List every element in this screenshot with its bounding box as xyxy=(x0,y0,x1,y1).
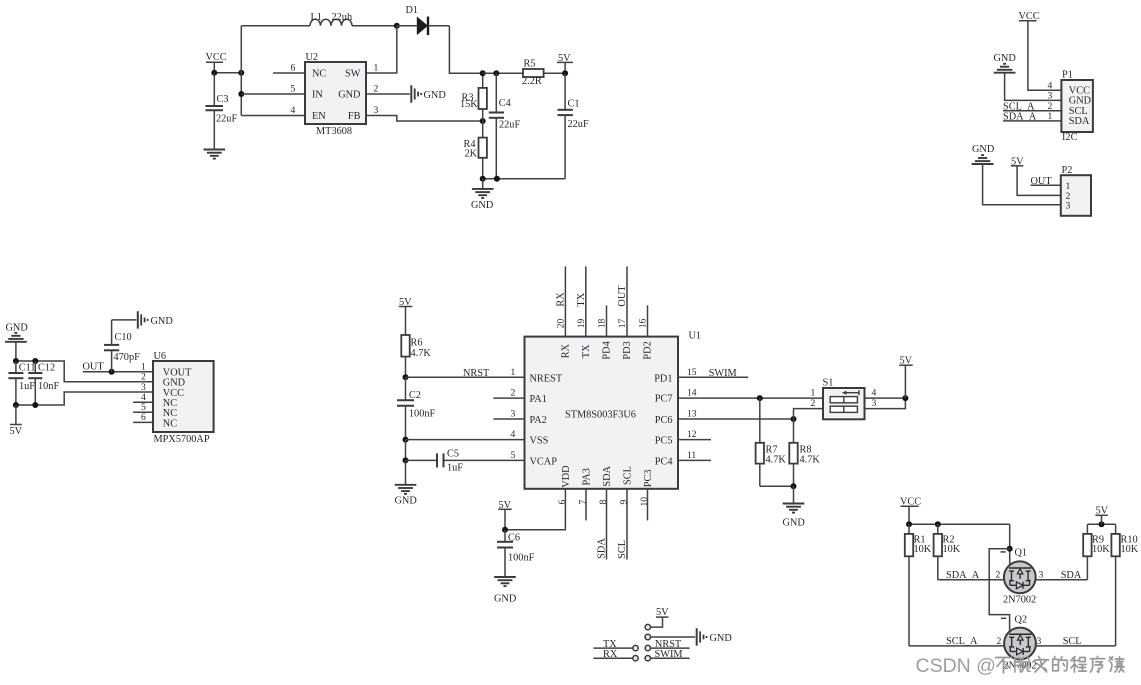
wire OUT pin17 xyxy=(626,266,628,336)
svg-text:MPX5700AP: MPX5700AP xyxy=(154,434,210,445)
sensor U6 MPX5700AP body xyxy=(153,351,214,445)
wire TX pin19 xyxy=(585,266,587,336)
svg-text:3: 3 xyxy=(1066,201,1071,212)
inductor L1 22uh xyxy=(310,12,353,26)
svg-text:C2: C2 xyxy=(409,390,421,401)
wire SCL_A to P1 pin2 xyxy=(1003,110,1061,112)
watermark glyph de xyxy=(1053,657,1068,671)
svg-text:SCL: SCL xyxy=(1063,636,1082,647)
svg-text:10K: 10K xyxy=(914,544,932,555)
svg-text:2: 2 xyxy=(811,398,816,409)
svg-text:20: 20 xyxy=(555,319,566,329)
ground earth below C2 xyxy=(395,460,418,506)
wire top to inductor xyxy=(241,25,310,27)
svg-text:U6: U6 xyxy=(154,351,167,362)
wire SDA pin8 xyxy=(606,489,608,560)
svg-text:U1: U1 xyxy=(689,331,702,342)
ground earth below C6 xyxy=(494,577,517,604)
power flag VCC (boost input) xyxy=(206,52,227,73)
wire C10 to GND bar xyxy=(112,319,137,321)
svg-text:PC3: PC3 xyxy=(643,469,654,487)
pin 11 PC4 stub xyxy=(678,459,711,461)
header pad RX xyxy=(633,656,638,661)
wire SDA row xyxy=(938,579,1088,581)
wire RX pin20 xyxy=(564,266,566,336)
resistor R8 4.7K xyxy=(789,419,820,486)
svg-text:SDA: SDA xyxy=(597,538,608,559)
wire FB pin3 to divider xyxy=(366,116,483,122)
svg-text:22uF: 22uF xyxy=(499,119,520,130)
node junction C12 bottom xyxy=(32,402,38,408)
wire sensor bottom rail to VCC pin3 xyxy=(16,392,153,405)
svg-text:PC7: PC7 xyxy=(655,393,673,404)
svg-text:PD3: PD3 xyxy=(622,341,633,359)
pin 6 NC stub xyxy=(273,72,305,74)
svg-text:3: 3 xyxy=(1037,636,1042,647)
resistor R9 10K xyxy=(1083,524,1110,579)
svg-text:VCC: VCC xyxy=(206,52,227,63)
svg-text:1uF: 1uF xyxy=(447,463,463,474)
svg-text:FB: FB xyxy=(348,111,361,122)
wire SCL row xyxy=(909,645,1116,647)
node junction C11 bottom xyxy=(13,402,19,408)
capacitor C6 100nF xyxy=(497,530,535,577)
svg-text:4.7K: 4.7K xyxy=(766,454,787,465)
capacitor C3 22uF xyxy=(206,73,238,150)
svg-text:NREST: NREST xyxy=(530,373,563,384)
node junction C4 top xyxy=(493,70,499,76)
wire node to S1 pin2 xyxy=(794,409,824,419)
svg-text:8: 8 xyxy=(598,500,609,505)
svg-text:4.7K: 4.7K xyxy=(800,454,821,465)
wire R7 bottom to R8 bottom xyxy=(760,485,794,487)
node junction out/R3 xyxy=(480,70,486,76)
wire 5V to P2 pin2 xyxy=(1017,166,1061,196)
svg-text:10nF: 10nF xyxy=(38,381,59,392)
svg-text:4.7K: 4.7K xyxy=(411,348,432,359)
svg-text:13: 13 xyxy=(687,409,697,420)
svg-text:6: 6 xyxy=(291,63,296,74)
wire sensor top rail to GND pin2 xyxy=(16,361,153,382)
svg-text:GND: GND xyxy=(338,90,361,101)
svg-text:5: 5 xyxy=(291,84,296,95)
power flag VCC (P1) xyxy=(1019,11,1040,22)
svg-text:2N7002: 2N7002 xyxy=(1003,594,1036,605)
node junction R1 top xyxy=(906,521,912,527)
svg-text:RX: RX xyxy=(556,292,567,307)
svg-text:3: 3 xyxy=(511,409,516,420)
svg-text:11: 11 xyxy=(687,450,696,461)
wire RX to header xyxy=(593,657,632,659)
svg-text:I2C: I2C xyxy=(1062,132,1078,143)
svg-text:C4: C4 xyxy=(499,98,511,109)
wire pin14 to S1 pin1 xyxy=(678,397,823,399)
wire OUT to VOUT pin1 xyxy=(83,371,153,373)
watermark glyph cheng xyxy=(1071,657,1087,673)
svg-text:GND: GND xyxy=(494,593,517,604)
power flag 5V (boost output) xyxy=(557,53,573,73)
wire output node to R5 xyxy=(483,72,523,74)
wire GND to P1 pin3 xyxy=(1005,73,1062,101)
ground GND (bar style) at U2 pin2 xyxy=(411,85,446,102)
node junction 5V/C6/VDD xyxy=(502,527,508,533)
svg-text:PA1: PA1 xyxy=(530,394,547,405)
pin 4 NC stub (U6) xyxy=(133,401,153,403)
wire NRST header xyxy=(651,647,690,649)
capacitor C5 1uF xyxy=(406,449,525,474)
pin 5 NC stub (U6) xyxy=(133,411,153,413)
resistor R6 4.7K xyxy=(401,335,431,377)
switch S1 body xyxy=(823,378,865,420)
node junction VSS xyxy=(403,437,409,443)
pin 2 PA1 stub xyxy=(493,397,524,399)
node junction 5V rail xyxy=(1099,521,1105,527)
pin 16 PD2 stub xyxy=(647,305,649,336)
node junction VCC/C3 xyxy=(211,70,217,76)
wire VCC rail to gate riser xyxy=(909,523,1010,525)
wire OUT to P2 pin1 xyxy=(1031,184,1061,186)
svg-text:VSS: VSS xyxy=(530,436,549,447)
capacitor C4 22uF xyxy=(489,73,521,179)
svg-text:470pF: 470pF xyxy=(114,352,141,363)
capacitor C1 22uF xyxy=(558,73,589,179)
pin 12 PC5 stub xyxy=(678,439,711,441)
connector P2 body xyxy=(1061,165,1091,216)
svg-text:VDD: VDD xyxy=(561,465,572,488)
svg-text:4: 4 xyxy=(511,429,516,440)
wire VCC to P1 pin4 xyxy=(1028,21,1062,91)
wire 5V to header pin xyxy=(651,617,663,627)
resistor R5 2.2R xyxy=(522,58,565,87)
node junction rail/C4 xyxy=(494,176,500,182)
pin 7 PA3 stub xyxy=(585,489,587,521)
svg-text:2K: 2K xyxy=(465,148,478,159)
wire S1 pin3 riser xyxy=(865,398,906,409)
svg-text:C1: C1 xyxy=(568,99,580,110)
svg-text:C12: C12 xyxy=(38,363,55,374)
wire input riser xyxy=(240,26,242,116)
pin 10 PC3 stub xyxy=(647,489,649,521)
svg-text:2: 2 xyxy=(996,569,1001,580)
svg-text:18: 18 xyxy=(597,319,608,329)
pin dash Q2 xyxy=(1001,617,1006,619)
svg-text:D1: D1 xyxy=(406,5,419,16)
node junction riser/IN xyxy=(238,91,244,97)
svg-text:CSDN @: CSDN @ xyxy=(916,655,996,677)
svg-text:GND: GND xyxy=(994,53,1017,64)
svg-text:R5: R5 xyxy=(524,58,536,69)
svg-text:3: 3 xyxy=(374,105,379,116)
node junction C10/VOUT xyxy=(109,369,115,375)
svg-text:100nF: 100nF xyxy=(409,409,436,420)
wire header GND xyxy=(651,636,696,638)
svg-text:GND: GND xyxy=(471,200,494,211)
svg-text:GND: GND xyxy=(6,323,29,334)
svg-text:15K: 15K xyxy=(460,99,478,110)
watermark glyph fa xyxy=(1034,657,1049,673)
svg-text:5: 5 xyxy=(511,450,516,461)
svg-text:SCL: SCL xyxy=(623,466,634,485)
svg-text:OUT: OUT xyxy=(617,285,628,307)
ground GND (bar style) header xyxy=(697,628,733,645)
svg-text:2: 2 xyxy=(511,388,516,399)
svg-text:1: 1 xyxy=(374,63,379,74)
pin 6 NC stub (U6) xyxy=(133,421,153,423)
svg-text:14: 14 xyxy=(687,388,697,399)
resistor R3 15K xyxy=(460,73,487,121)
power flag 5V (R6) xyxy=(399,297,413,335)
node junction R2 top xyxy=(935,521,941,527)
resistor R10 10K xyxy=(1111,524,1138,646)
svg-text:PD2: PD2 xyxy=(643,341,654,359)
header pad TX xyxy=(633,645,638,650)
svg-text:P1: P1 xyxy=(1062,70,1073,81)
node junction R7/pin14 xyxy=(757,395,763,401)
svg-text:3: 3 xyxy=(872,398,877,409)
capacitor C2 100nF xyxy=(397,377,435,439)
ground earth below C3 xyxy=(204,150,226,159)
node junction riser/VCC xyxy=(238,70,244,76)
node junction R8/pin13 xyxy=(791,416,797,422)
ground GND flag above C11/C12 xyxy=(5,323,28,342)
wire 5V rail (right) xyxy=(1087,523,1115,525)
svg-text:SW: SW xyxy=(345,69,361,80)
node junction FB/R3/R4 xyxy=(480,118,486,124)
svg-text:PA2: PA2 xyxy=(530,415,547,426)
wire NRST to pin1 xyxy=(406,376,525,378)
wire D1 cathode to output node xyxy=(449,26,482,73)
wire gate bypass to Q2 xyxy=(989,549,1010,634)
power flag 5V (S1) xyxy=(899,356,913,398)
wire gate riser Q1 xyxy=(1009,524,1011,568)
svg-text:2: 2 xyxy=(374,84,379,95)
svg-text:22uh: 22uh xyxy=(332,12,353,23)
node junction Q1 gate xyxy=(1007,546,1013,552)
svg-text:PD4: PD4 xyxy=(602,341,613,359)
svg-text:PA3: PA3 xyxy=(581,468,592,485)
transistor Q2 2N7002 xyxy=(1004,615,1037,672)
svg-text:PD1: PD1 xyxy=(654,373,672,384)
ground GND (bar style) at C10 xyxy=(138,311,174,328)
svg-text:S1: S1 xyxy=(823,378,834,389)
svg-text:10: 10 xyxy=(639,497,650,507)
wire pin13 to R8 node xyxy=(678,418,794,420)
svg-text:C3: C3 xyxy=(217,94,229,105)
svg-text:C6: C6 xyxy=(508,533,520,544)
svg-text:C11: C11 xyxy=(19,363,36,374)
watermark glyph xu xyxy=(1090,656,1104,672)
wire VDD pin6 xyxy=(505,489,565,530)
svg-text:10K: 10K xyxy=(1092,544,1110,555)
node junction VCAP xyxy=(403,457,409,463)
wire VSS pin4 xyxy=(406,439,525,441)
wire riser to EN pin4 xyxy=(241,115,305,117)
resistor R1 10K xyxy=(905,524,932,646)
svg-text:VCAP: VCAP xyxy=(530,456,558,467)
svg-text:1: 1 xyxy=(511,367,516,378)
svg-text:6: 6 xyxy=(141,412,146,423)
svg-text:GND: GND xyxy=(783,518,806,529)
svg-text:PC4: PC4 xyxy=(655,456,673,467)
node junction C11 top xyxy=(13,358,19,364)
wire SDA_A to P1 pin1 xyxy=(1003,120,1061,122)
svg-text:TX: TX xyxy=(581,344,592,358)
power flag 5V (level shifter) xyxy=(1095,506,1108,525)
svg-text:3: 3 xyxy=(1039,569,1044,580)
svg-text:L1: L1 xyxy=(311,12,322,23)
resistor R2 10K xyxy=(934,524,961,579)
svg-text:RX: RX xyxy=(560,343,571,358)
op-amp U2 MT3608 body xyxy=(305,52,366,137)
svg-text:U2: U2 xyxy=(306,52,319,63)
svg-text:6: 6 xyxy=(557,500,568,505)
svg-text:10K: 10K xyxy=(1121,544,1139,555)
svg-text:TX: TX xyxy=(576,292,587,306)
pin 18 PD4 stub xyxy=(606,305,608,336)
node junction SW/D1 xyxy=(394,23,400,29)
node junction S1 5V xyxy=(902,395,908,401)
power flag 5V (header) xyxy=(656,607,669,618)
wire TX to header xyxy=(593,647,632,649)
svg-text:100nF: 100nF xyxy=(508,553,535,564)
svg-text:R6: R6 xyxy=(411,338,423,349)
svg-text:1uF: 1uF xyxy=(19,381,35,392)
capacitor C11 1uF xyxy=(8,361,35,405)
header pad GND xyxy=(645,634,650,639)
svg-text:17: 17 xyxy=(617,319,628,329)
header pad NRST xyxy=(645,645,650,650)
connector P1 I2C body xyxy=(1061,70,1093,144)
transistor Q1 2N7002 xyxy=(1003,548,1036,606)
svg-text:4: 4 xyxy=(872,387,877,398)
svg-text:5V: 5V xyxy=(10,426,23,437)
watermark glyph bu xyxy=(996,658,1012,674)
wire SCL pin9 xyxy=(626,489,628,560)
watermark glyph tuo xyxy=(1015,658,1030,673)
svg-text:MT3608: MT3608 xyxy=(316,126,352,137)
wire GND to P2 pin3 xyxy=(983,164,1061,205)
svg-text:10K: 10K xyxy=(943,544,961,555)
pin dash Q1 xyxy=(1001,551,1006,553)
capacitor C12 10nF xyxy=(28,361,59,405)
svg-text:Q1: Q1 xyxy=(1015,548,1028,559)
wire bottom ground rail xyxy=(483,178,565,180)
svg-text:GND: GND xyxy=(424,90,447,101)
resistor R4 2K xyxy=(464,121,487,179)
svg-text:22uF: 22uF xyxy=(216,114,237,125)
wire VSS to VCAP branch xyxy=(405,440,407,461)
watermark glyph yuan xyxy=(1109,657,1124,672)
svg-text:SDA: SDA xyxy=(1061,570,1082,581)
svg-text:SCL: SCL xyxy=(617,540,628,559)
svg-text:12: 12 xyxy=(687,429,697,440)
svg-text:4: 4 xyxy=(291,105,296,116)
wire S1 pin4 to 5V xyxy=(865,397,906,399)
svg-text:PC6: PC6 xyxy=(655,415,673,426)
node junction rail/R4 xyxy=(480,176,486,182)
svg-text:1: 1 xyxy=(811,387,816,398)
svg-text:15: 15 xyxy=(687,367,697,378)
svg-text:PC5: PC5 xyxy=(655,436,673,447)
svg-text:1: 1 xyxy=(1048,111,1053,122)
wire SWIM pin15 xyxy=(678,376,748,378)
svg-text:GND: GND xyxy=(710,633,733,644)
diode D1 xyxy=(397,5,450,35)
svg-text:STM8S003F3U6: STM8S003F3U6 xyxy=(565,410,636,421)
svg-text:Q2: Q2 xyxy=(1015,615,1028,626)
svg-text:GND: GND xyxy=(151,316,174,327)
svg-text:SDA: SDA xyxy=(1069,116,1090,127)
wire GND stem to top rail xyxy=(15,342,17,361)
svg-text:2: 2 xyxy=(997,636,1002,647)
svg-text:NC: NC xyxy=(163,418,177,429)
svg-text:SDA: SDA xyxy=(602,465,613,486)
svg-text:IN: IN xyxy=(312,90,323,101)
pin 3 PA2 stub xyxy=(493,418,524,420)
svg-text:C5: C5 xyxy=(447,449,459,460)
header pad 5V xyxy=(645,624,650,629)
ground earth GND below divider xyxy=(471,179,494,211)
node junction C12 top xyxy=(32,358,38,364)
header pad SWIM xyxy=(645,656,650,661)
svg-text:NC: NC xyxy=(312,69,326,80)
svg-text:9: 9 xyxy=(619,500,630,505)
power flag VCC (level shifter) xyxy=(900,497,921,525)
ground GND flag above P1 xyxy=(994,53,1017,73)
power flag 5V below (sensor) xyxy=(10,405,23,437)
svg-text:7: 7 xyxy=(578,500,589,505)
power flag 5V (P2) xyxy=(1011,156,1024,167)
svg-text:C10: C10 xyxy=(115,332,132,343)
wire VCC to riser xyxy=(214,72,241,74)
wire inductor to D1 node xyxy=(352,25,397,27)
resistor R7 4.7K xyxy=(756,398,787,486)
svg-text:EN: EN xyxy=(312,111,326,122)
wire GND pin2 xyxy=(366,93,410,95)
power flag 5V (VDD) xyxy=(498,500,512,530)
capacitor C10 470pF xyxy=(104,320,140,372)
node junction 5V/C1 xyxy=(562,70,568,76)
wire SWIM header xyxy=(651,657,690,659)
node junction NRST xyxy=(403,374,409,380)
ground earth below R7/R8 xyxy=(783,486,806,528)
svg-text:16: 16 xyxy=(638,319,649,329)
ground GND flag above P2 xyxy=(972,144,995,164)
wire riser to IN pin5 xyxy=(241,93,305,95)
svg-text:22uF: 22uF xyxy=(568,119,589,130)
svg-text:SWIM: SWIM xyxy=(709,368,737,379)
svg-text:19: 19 xyxy=(576,319,587,329)
svg-text:P2: P2 xyxy=(1062,165,1073,176)
svg-text:GND: GND xyxy=(395,495,418,506)
svg-text:2.2R: 2.2R xyxy=(522,76,542,87)
wire SW pin1 riser xyxy=(366,26,397,73)
node junction R7/R8 ground xyxy=(791,483,797,489)
svg-text:OUT: OUT xyxy=(83,361,105,372)
MCU U1 STM8S003F3U6 body xyxy=(525,331,702,489)
svg-text:GND: GND xyxy=(972,144,995,155)
